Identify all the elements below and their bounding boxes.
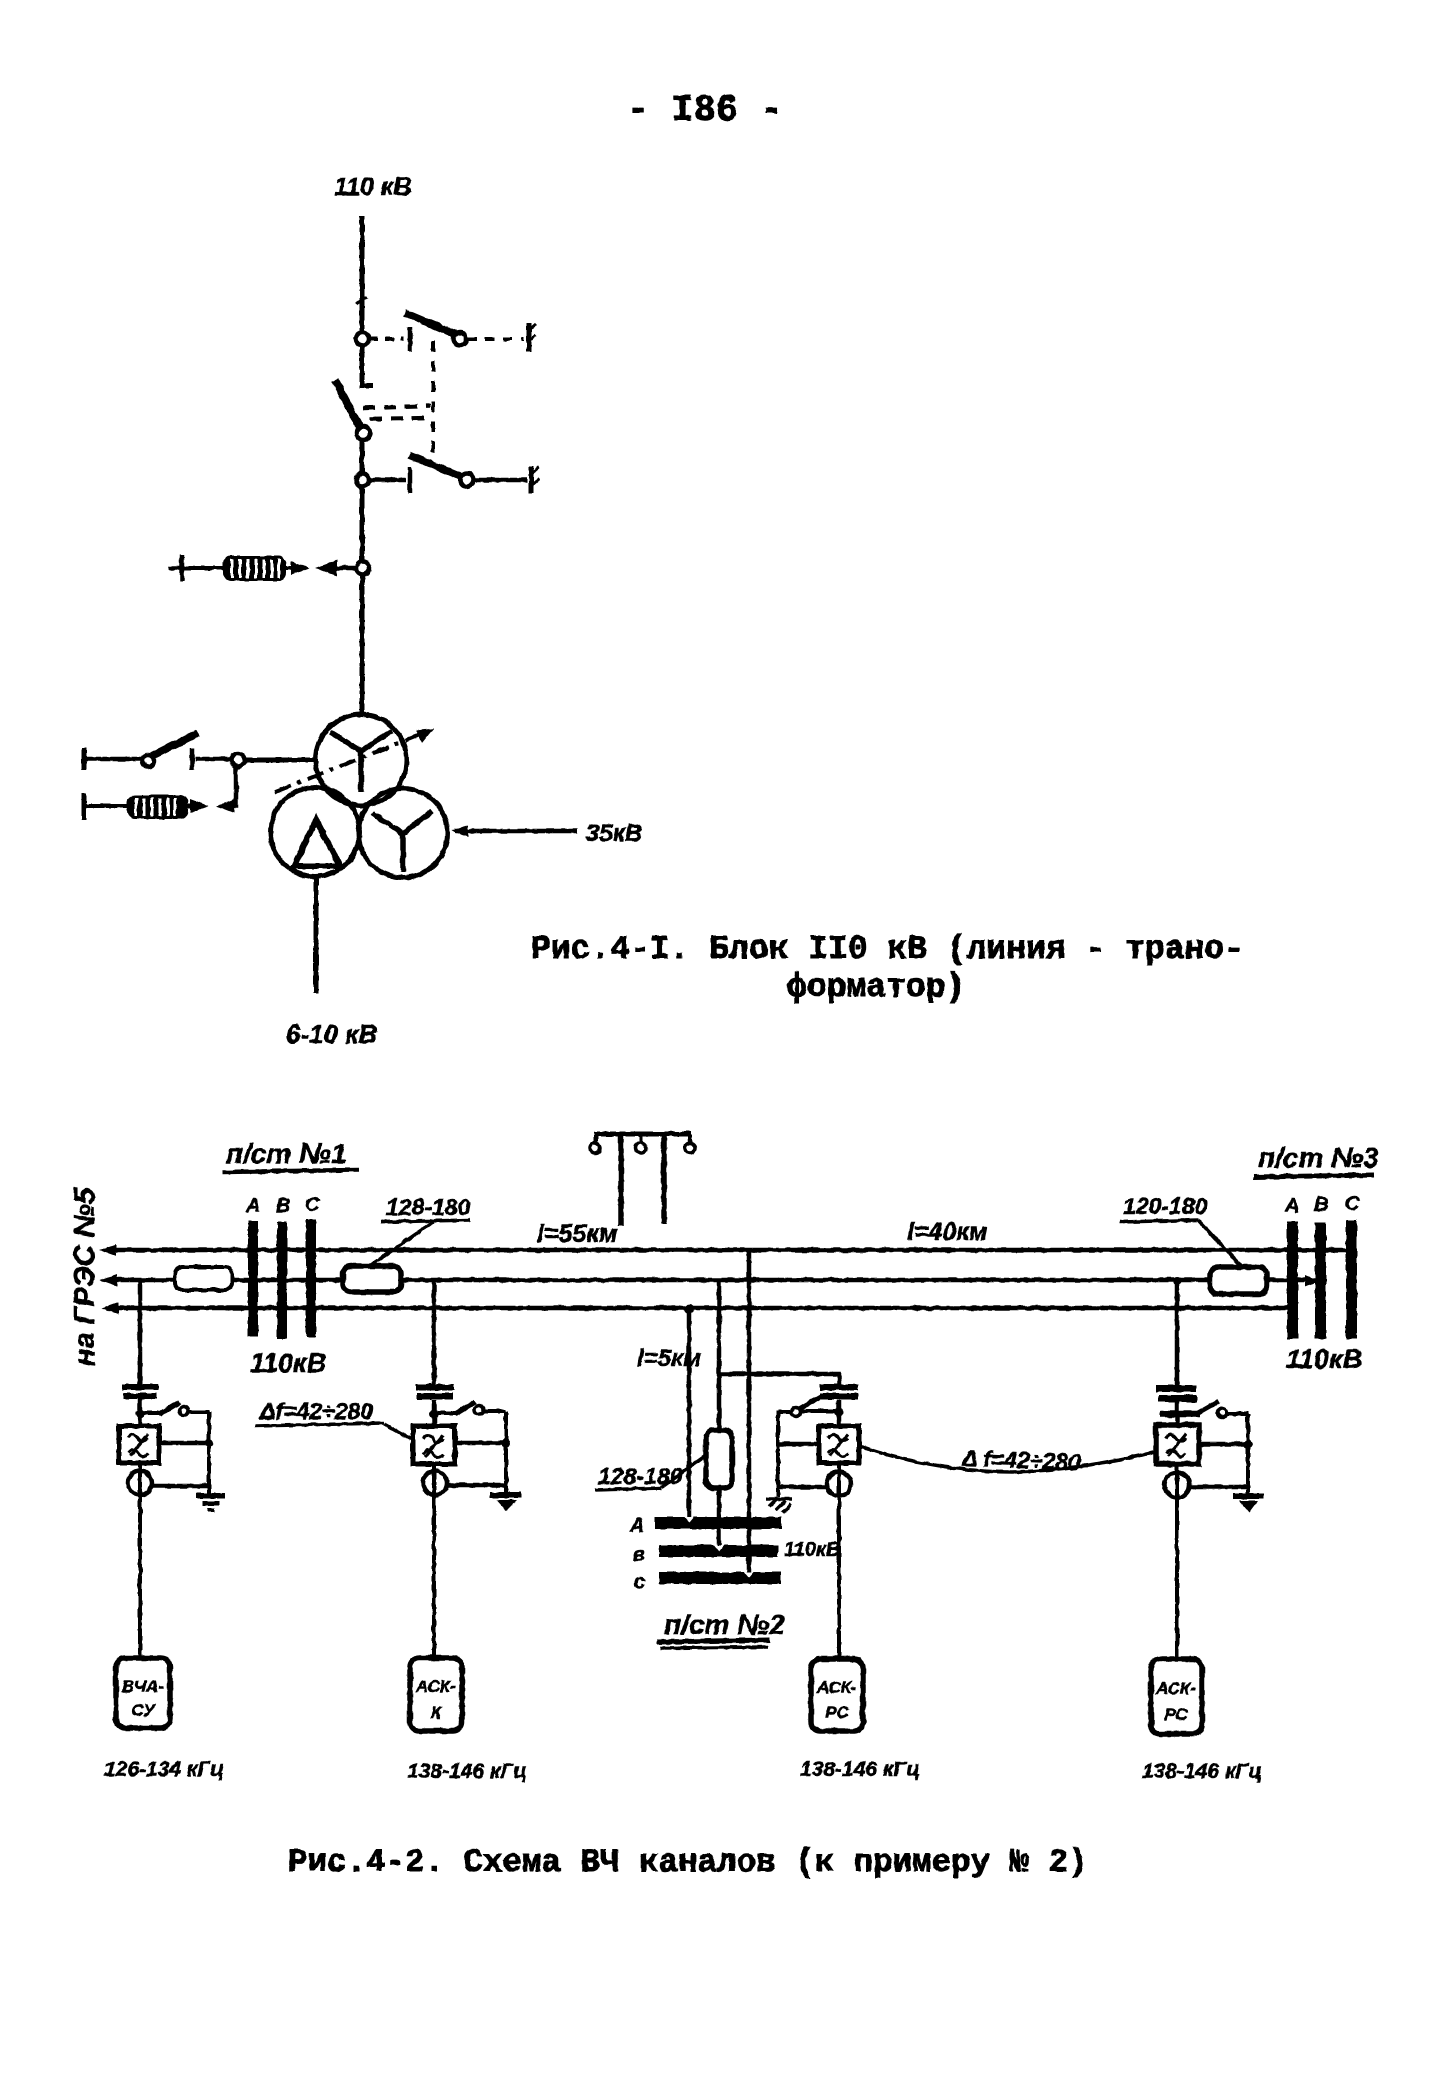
T1 HV star symbol bbox=[330, 731, 392, 792]
svg-text:l=5км: l=5км bbox=[637, 1345, 701, 1372]
label p/st N3 bbox=[1254, 1142, 1379, 1177]
T1 MV winding bbox=[359, 789, 448, 878]
junction dot bottom line bbox=[684, 1304, 694, 1314]
scan tick on feeder bbox=[356, 297, 367, 304]
terminal box PU4 bbox=[1151, 1659, 1202, 1734]
coupling capacitor C1 bbox=[122, 1384, 158, 1399]
substation 1 phase bars bbox=[248, 1219, 316, 1339]
svg-text:110 кВ: 110 кВ bbox=[334, 173, 412, 201]
earthing knife switch S3 (left) bbox=[778, 1396, 835, 1417]
F3 wave symbol bbox=[828, 1434, 848, 1457]
busbar C bbox=[659, 1572, 781, 1584]
junction dot F2 bbox=[502, 1439, 511, 1448]
wire: cable down 4 bbox=[1175, 1464, 1179, 1659]
wire: phase line middle bbox=[100, 1274, 1319, 1287]
svg-text:форматор): форматор) bbox=[787, 969, 965, 1006]
neutral node N6 bbox=[232, 754, 245, 767]
labels A B C (st.1) bbox=[245, 1194, 320, 1217]
surge arrester FV2 row bbox=[84, 793, 209, 820]
earthing switch QS1 (dashed) bbox=[369, 313, 524, 351]
svg-text:А: А bbox=[629, 1515, 644, 1537]
neutral switch QS4 bbox=[86, 733, 231, 770]
interlock dashed vertical bbox=[431, 341, 435, 458]
svg-text:6-10 кВ: 6-10 кВ bbox=[286, 1019, 377, 1049]
ground 1 bbox=[196, 1493, 225, 1512]
filter box F1 bbox=[119, 1426, 159, 1463]
substation 3 phase bars bbox=[1287, 1220, 1357, 1339]
labels A B C (st.3) bbox=[1284, 1193, 1360, 1217]
wire: ground riser 2 bbox=[504, 1411, 508, 1493]
coupling capacitor C2 bbox=[416, 1384, 454, 1400]
cable sleeve 1 bbox=[128, 1471, 152, 1495]
svg-text:ВЧА-: ВЧА- bbox=[122, 1677, 165, 1696]
wire: sleeve 3 to ground bbox=[776, 1485, 827, 1490]
coupling capacitor C3 bbox=[819, 1384, 858, 1400]
wire: branch 3 feed bbox=[719, 1374, 839, 1386]
junction dot 1 bbox=[136, 1410, 145, 1419]
node N4 bbox=[356, 474, 369, 487]
wire: ground riser 4 bbox=[1246, 1414, 1250, 1495]
wire: drop 1 bbox=[138, 1280, 143, 1386]
wire: ground riser 3 bbox=[776, 1411, 780, 1497]
wire: breaker upper stub bbox=[362, 346, 373, 386]
line trap L3 bbox=[1210, 1267, 1267, 1294]
junction dot drop 4 bbox=[1173, 1277, 1181, 1285]
surge arrester FV1 row bbox=[168, 555, 310, 581]
F1 wave symbol bbox=[128, 1434, 148, 1457]
PU4 text bbox=[1155, 1679, 1196, 1724]
line trap L1 bbox=[175, 1267, 232, 1290]
ground 4 (arrow) bbox=[1233, 1493, 1264, 1513]
svg-text:128-180: 128-180 bbox=[386, 1194, 471, 1220]
svg-text:РС: РС bbox=[1164, 1705, 1188, 1724]
line trap L2 bbox=[343, 1266, 401, 1292]
busbar labels A v s bbox=[629, 1515, 645, 1593]
svg-text:Рис.4-2. Схема ВЧ каналов (к п: Рис.4-2. Схема ВЧ каналов (к примеру № 2… bbox=[288, 1844, 1088, 1881]
filter box F3 bbox=[819, 1426, 859, 1463]
T1 delta symbol bbox=[294, 820, 340, 866]
svg-text:l=55км: l=55км bbox=[537, 1220, 618, 1248]
svg-text:Δ f=42÷280: Δ f=42÷280 bbox=[961, 1445, 1082, 1475]
terminal box PU3 bbox=[811, 1659, 863, 1731]
svg-text:на ГРЭС №5: на ГРЭС №5 bbox=[69, 1187, 101, 1366]
PU3 text bbox=[816, 1678, 857, 1722]
busbar B bbox=[659, 1545, 778, 1557]
line trap L4 (vertical) bbox=[706, 1430, 732, 1488]
node N1 bbox=[356, 333, 369, 346]
wire: cable down 1 bbox=[138, 1463, 142, 1658]
svg-text:РС: РС bbox=[825, 1703, 849, 1722]
label p/st N2 bbox=[657, 1609, 785, 1648]
wire: F2 to ground riser bbox=[455, 1441, 506, 1446]
wire: 110kV feeder vertical top bbox=[360, 216, 365, 333]
earthing knife switch S1 bbox=[144, 1402, 209, 1416]
wire: F1 to ground riser bbox=[159, 1441, 209, 1446]
wire: sleeve 4 to ground bbox=[1190, 1485, 1250, 1490]
svg-text:120-180: 120-180 bbox=[1123, 1193, 1208, 1219]
svg-text:с: с bbox=[634, 1571, 645, 1593]
svg-text:110кВ: 110кВ bbox=[250, 1348, 326, 1378]
PU1 text bbox=[122, 1677, 165, 1720]
regulation arrow (dash-dot) bbox=[275, 728, 434, 792]
svg-text:А: А bbox=[245, 1195, 260, 1217]
label 128-180 (L4) bbox=[595, 1456, 705, 1490]
wire: sleeve 1 to ground bbox=[152, 1484, 211, 1489]
junction dot 3 bbox=[835, 1408, 844, 1417]
terminal box PU1 bbox=[116, 1658, 170, 1728]
plug arrow left bbox=[315, 560, 356, 576]
ground terminal QS3 bbox=[531, 466, 539, 493]
cable sleeve 3 bbox=[827, 1472, 851, 1496]
wire: tap phase C bbox=[747, 1250, 752, 1574]
filter box F2 bbox=[413, 1426, 455, 1464]
wire: F3 to ground riser bbox=[778, 1442, 819, 1447]
svg-text:в: в bbox=[633, 1544, 645, 1566]
wire: N6 to transformer bbox=[245, 758, 315, 763]
plug node N5 bbox=[357, 562, 370, 575]
junction dot 2 bbox=[430, 1410, 439, 1419]
svg-text:С: С bbox=[1345, 1193, 1360, 1215]
PU2 text bbox=[415, 1677, 456, 1722]
svg-text:АСК-: АСК- bbox=[415, 1677, 456, 1696]
label delta-f 42-280 bbox=[255, 1398, 411, 1439]
wire: phase line bottom bbox=[101, 1302, 1292, 1314]
wire: F4 to ground riser bbox=[1199, 1442, 1248, 1447]
wire: plug node to transformer bbox=[360, 575, 365, 714]
interlock dashed links bbox=[363, 406, 433, 419]
wire: drop 2 bbox=[432, 1280, 437, 1386]
svg-text:АСК-: АСК- bbox=[1155, 1679, 1196, 1698]
svg-text:138-146 кГц: 138-146 кГц bbox=[407, 1760, 527, 1783]
wire: cable down 2 bbox=[432, 1464, 436, 1658]
coupling capacitor C4 bbox=[1156, 1385, 1197, 1402]
cable sleeve 2 bbox=[423, 1471, 447, 1495]
wire: C2 to filter bbox=[432, 1400, 437, 1426]
svg-text:АСК-: АСК- bbox=[816, 1678, 857, 1697]
svg-text:Рис.4-I. Блок II0 кВ (линия -: Рис.4-I. Блок II0 кВ (линия - трано- bbox=[531, 931, 1244, 968]
svg-text:К: К bbox=[431, 1703, 443, 1722]
wire: 35kV lead bbox=[452, 825, 577, 837]
T1 MV star symbol bbox=[372, 811, 432, 872]
F2 wave symbol bbox=[423, 1435, 443, 1458]
svg-text:110кВ: 110кВ bbox=[1286, 1344, 1362, 1374]
transformer T1 HV winding bbox=[316, 715, 407, 806]
label p/st N1 bbox=[222, 1138, 359, 1172]
filter box F4 bbox=[1156, 1425, 1199, 1464]
ground 3 bbox=[766, 1498, 792, 1513]
busbar wedge notches bbox=[684, 1517, 754, 1578]
svg-text:С: С bbox=[305, 1194, 320, 1216]
disconnector QS2 blade bbox=[335, 380, 360, 428]
svg-text:35кВ: 35кВ bbox=[586, 820, 642, 847]
junction dot F4 bbox=[1244, 1440, 1253, 1449]
junction dot F1 bbox=[205, 1439, 214, 1448]
svg-text:l=40км: l=40км bbox=[907, 1218, 988, 1246]
T1 LV winding (delta) bbox=[271, 788, 360, 877]
QS2 hinge circle bbox=[357, 426, 371, 440]
wire: drop 4 bbox=[1175, 1280, 1180, 1388]
svg-text:128-180: 128-180 bbox=[598, 1463, 683, 1489]
svg-text:138-146 кГц: 138-146 кГц bbox=[1142, 1760, 1262, 1783]
neutral terminal bar bbox=[82, 748, 87, 770]
label 120-180 (L3) bbox=[1120, 1193, 1242, 1267]
wire: C1 to filter bbox=[138, 1399, 143, 1426]
F4 wave symbol bbox=[1166, 1434, 1186, 1457]
cable sleeve 4 bbox=[1165, 1473, 1190, 1498]
earthing knife switch S4 bbox=[1160, 1401, 1248, 1418]
delta-f curve bbox=[859, 1446, 1156, 1472]
svg-text:п/ст №2: п/ст №2 bbox=[664, 1609, 785, 1640]
wire: C3 to filter bbox=[837, 1400, 842, 1426]
wire: cable down 3 bbox=[837, 1463, 841, 1659]
svg-text:п/ст №1: п/ст №1 bbox=[226, 1138, 347, 1169]
svg-text:В: В bbox=[276, 1195, 290, 1217]
overhead tower symbol bbox=[590, 1134, 695, 1226]
svg-text:В: В bbox=[1314, 1194, 1328, 1216]
svg-text:Δf=42÷280: Δf=42÷280 bbox=[259, 1398, 373, 1424]
wire: sleeve 2 to ground bbox=[447, 1483, 508, 1488]
earthing switch QS3 (closed side) bbox=[369, 455, 527, 493]
wire: phase line top bbox=[99, 1244, 1351, 1256]
busbar A bbox=[655, 1517, 781, 1529]
wire: between QS2 and N4 bbox=[360, 441, 365, 473]
svg-text:СУ: СУ bbox=[131, 1701, 156, 1720]
ground 2 bbox=[490, 1492, 521, 1511]
wire: C4 to filter bbox=[1175, 1402, 1180, 1425]
earthing knife switch S2 bbox=[438, 1402, 506, 1415]
svg-text:п/ст №3: п/ст №3 bbox=[1258, 1142, 1379, 1173]
svg-text:138-146 кГц: 138-146 кГц bbox=[800, 1758, 920, 1781]
wire: tap phase B bbox=[717, 1280, 722, 1547]
wire: tap phase A bbox=[687, 1309, 692, 1519]
wire: ground riser 1 bbox=[207, 1412, 211, 1494]
svg-text:А: А bbox=[1284, 1195, 1299, 1217]
svg-text:126-134 кГц: 126-134 кГц bbox=[104, 1758, 224, 1781]
wire: N4 to plug node bbox=[360, 487, 365, 562]
label 128-180 (L2) bbox=[370, 1194, 471, 1266]
svg-text:- I86 -: - I86 - bbox=[627, 90, 782, 132]
ground terminal QS1 bbox=[529, 323, 536, 352]
wire: neutral drop with arrow bbox=[216, 767, 236, 813]
wire: 6-10kV lead bbox=[314, 878, 319, 993]
svg-text:110кВ: 110кВ bbox=[784, 1539, 840, 1561]
terminal box PU2 bbox=[410, 1658, 462, 1731]
